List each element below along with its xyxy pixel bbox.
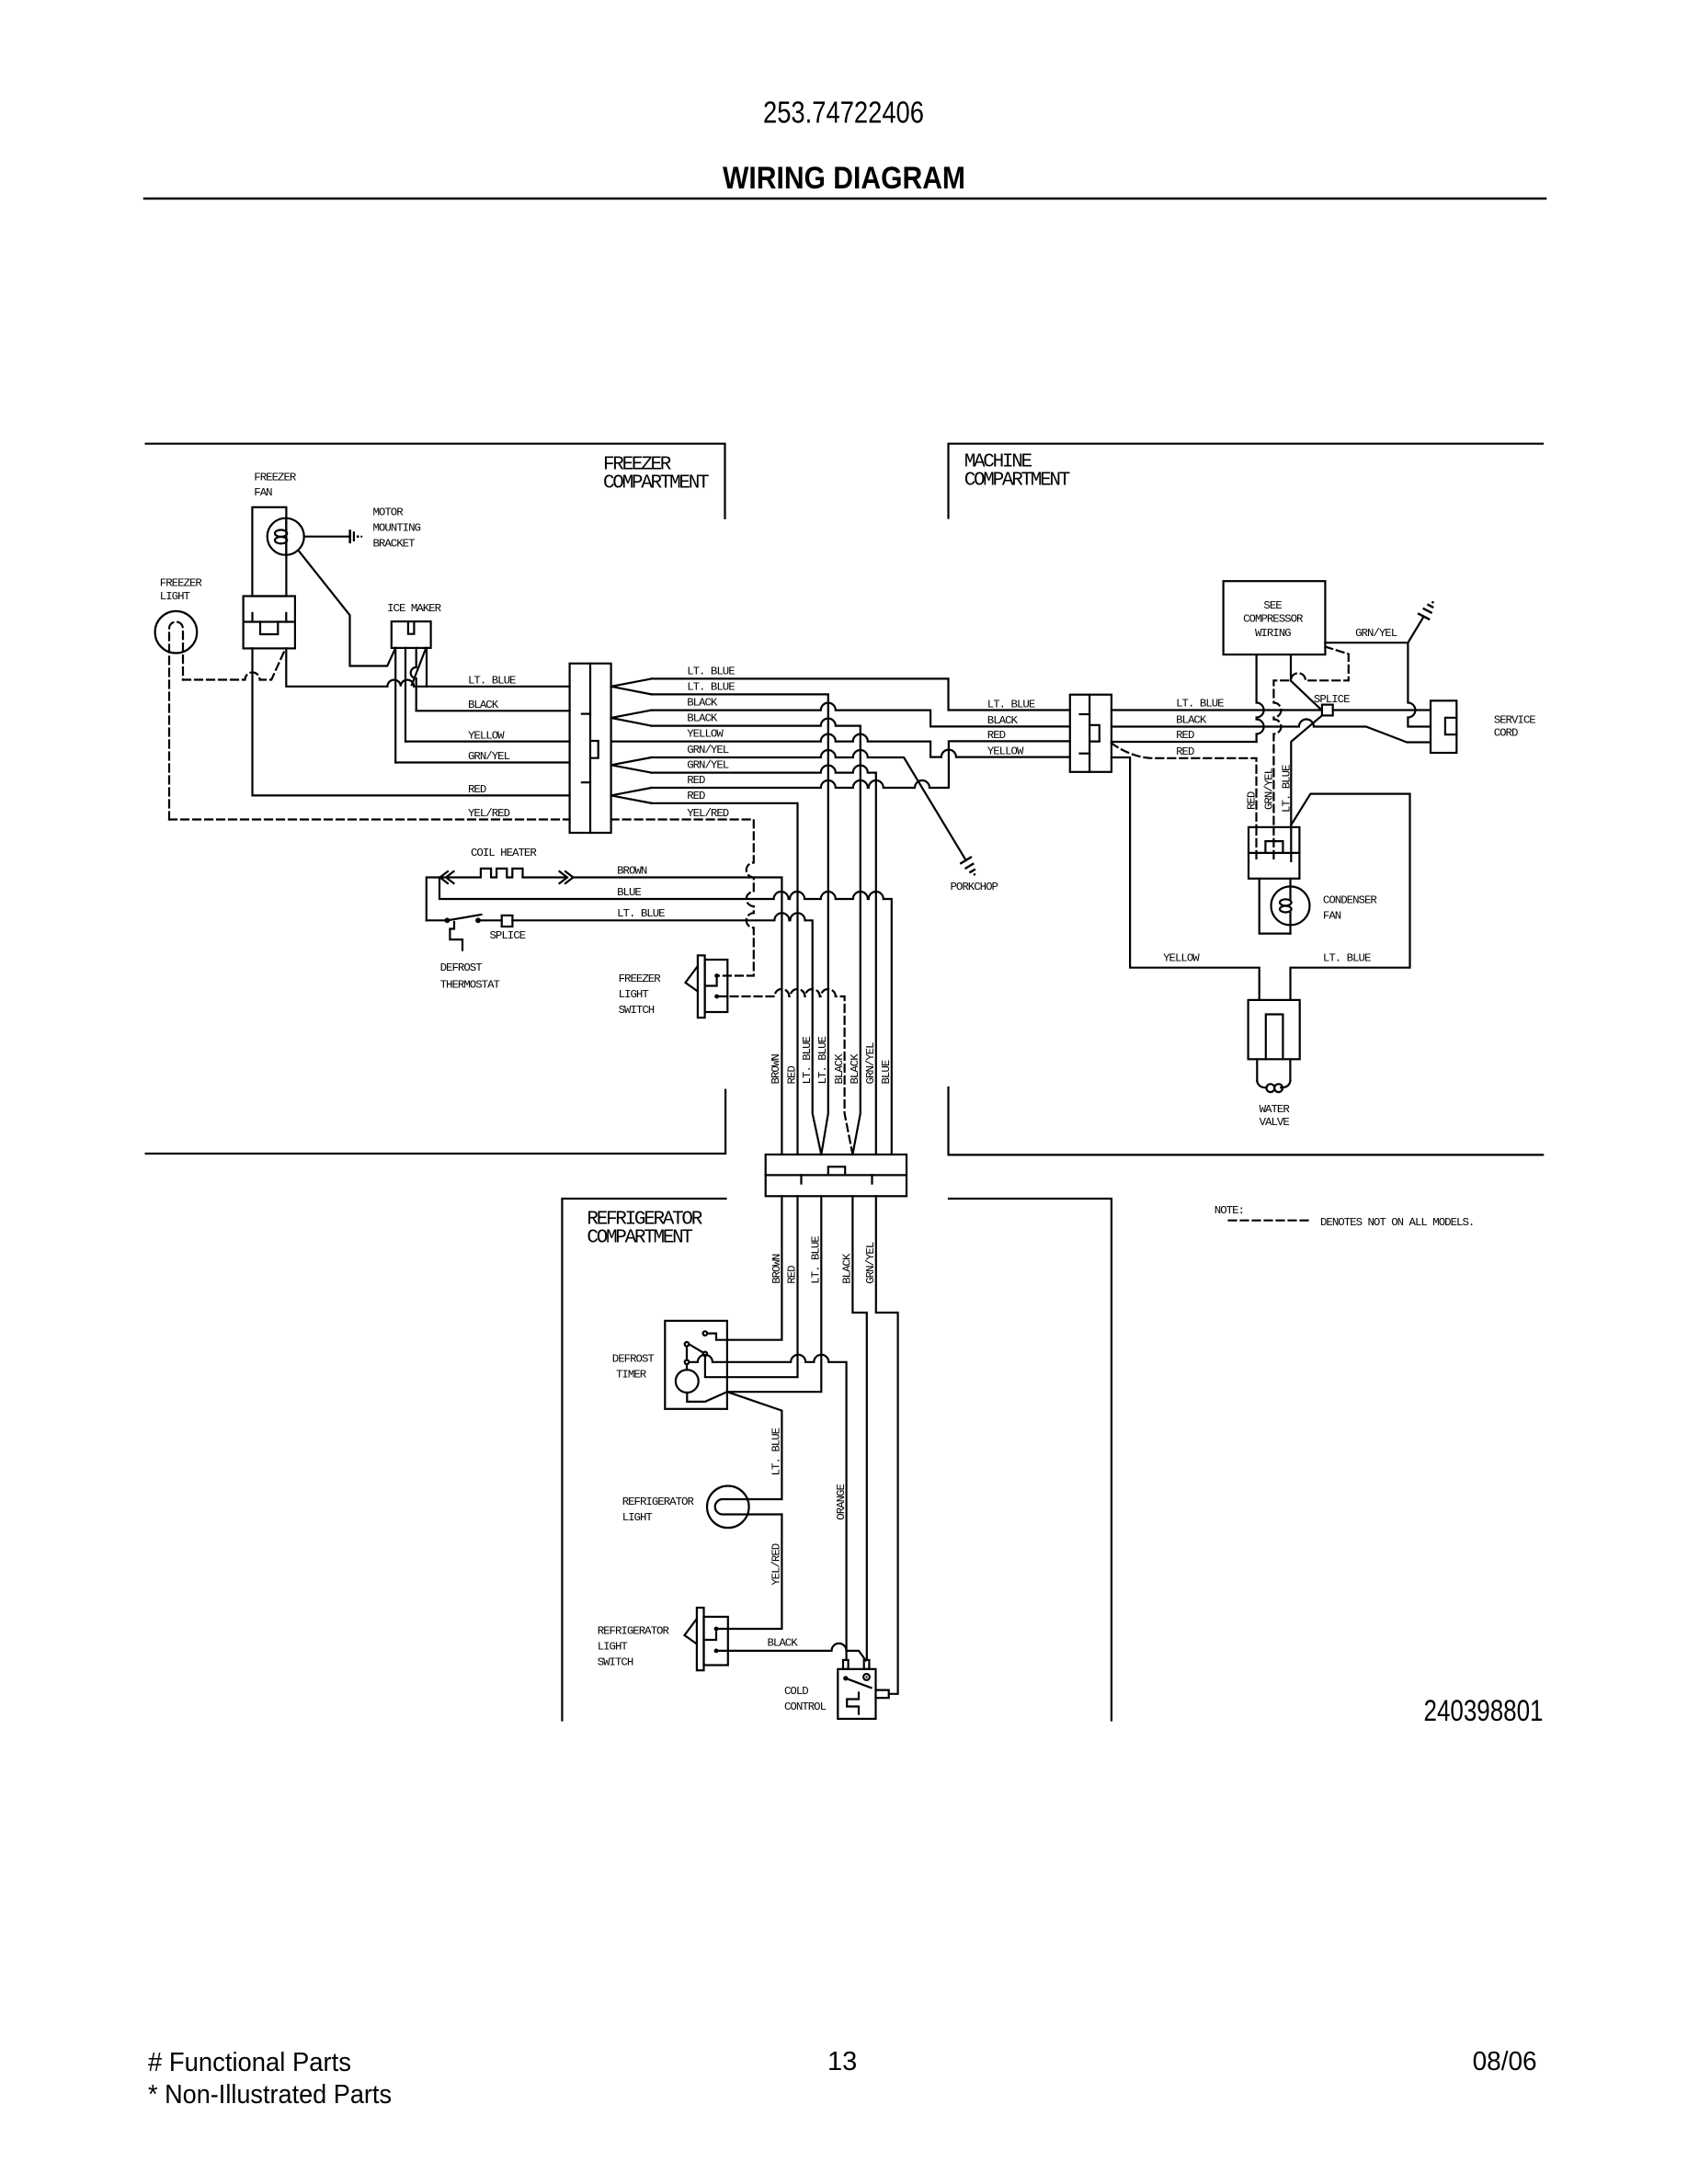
C3 divider <box>766 1174 907 1176</box>
svg-text:YELLOW: YELLOW <box>468 729 505 742</box>
wire LT. BLUE C2 to splice <box>1112 709 1321 711</box>
svg-text:FREEZER: FREEZER <box>254 472 297 484</box>
wire LT. BLUE coil to C3 <box>512 913 821 1155</box>
svg-text:LT. BLUE: LT. BLUE <box>468 675 516 688</box>
svg-text:ICE MAKER: ICE MAKER <box>387 602 441 615</box>
svg-text:DENOTES NOT ON ALL MODELS.: DENOTES NOT ON ALL MODELS. <box>1320 1216 1474 1229</box>
svg-text:COMPRESSOR: COMPRESSOR <box>1243 613 1304 626</box>
machine compartment border top-left <box>949 444 1544 518</box>
svg-text:240398801: 240398801 <box>1424 1694 1544 1727</box>
svg-text:GRN/YEL: GRN/YEL <box>468 750 510 763</box>
wire GRN/YEL C3 to cold control <box>876 1196 898 1694</box>
C2 notch <box>1089 725 1100 742</box>
wire LT. BLUE #2 down to C3 <box>652 694 828 1155</box>
svg-text:YEL/RED: YEL/RED <box>468 807 510 820</box>
svg-text:253.74722406: 253.74722406 <box>763 96 924 130</box>
svg-text:DEFROST: DEFROST <box>612 1353 655 1366</box>
C2 tick 1 <box>1080 713 1090 715</box>
svg-text:RED: RED <box>1176 729 1194 742</box>
svg-text:REFRIGERATOR: REFRIGERATOR <box>598 1624 670 1637</box>
wire RED #1 up to C2 <box>652 741 1070 788</box>
svg-text:RED: RED <box>1246 791 1259 810</box>
compressor box SEE COMPRESSOR WIRING <box>1224 581 1326 654</box>
svg-text:SWITCH: SWITCH <box>619 1004 655 1017</box>
svg-text:LT. BLUE: LT. BLUE <box>816 1036 829 1084</box>
svg-text:PORKCHOP: PORKCHOP <box>951 881 998 893</box>
wire LT. BLUE condenser to water valve loop <box>1291 794 1410 1000</box>
wire BROWN heater to C3 <box>573 878 781 1155</box>
C3 pin stub right <box>871 1175 873 1183</box>
svg-text:LT. BLUE: LT. BLUE <box>1323 952 1371 965</box>
condenser motor coil loops <box>1280 899 1292 905</box>
refrigerator light filament U <box>715 1499 782 1515</box>
splice square freezer <box>502 916 513 927</box>
ice maker lead 2 vertical (yellow) <box>405 648 406 742</box>
timer contact4 to motor <box>686 1364 688 1370</box>
svg-text:LT. BLUE: LT. BLUE <box>687 665 735 677</box>
svg-text:LT. BLUE: LT. BLUE <box>617 907 665 920</box>
condenser pin lt.blue stub <box>1290 827 1292 861</box>
svg-text:YEL/RED: YEL/RED <box>687 807 729 820</box>
wire BLACK C2 to service cord <box>1112 720 1431 743</box>
svg-text:GRN/YEL: GRN/YEL <box>1355 627 1397 640</box>
wire YELLOW to C2 <box>611 734 1070 757</box>
freezer switch internal link <box>705 979 717 986</box>
wire GRN/YEL dashed compressor to condenser fan <box>1273 647 1348 827</box>
freezer switch contact bottom <box>714 995 719 999</box>
svg-text:COMPARTMENT: COMPARTMENT <box>603 473 709 495</box>
wire GRN/YEL #1 to porkchop ground <box>652 750 966 860</box>
timer contact 2 <box>685 1342 690 1347</box>
svg-text:BLACK: BLACK <box>687 712 718 725</box>
condenser fan motor leads <box>1289 879 1291 934</box>
svg-text:LT. BLUE: LT. BLUE <box>687 680 735 693</box>
svg-text:RED: RED <box>785 1066 798 1085</box>
svg-text:BLUE: BLUE <box>880 1060 893 1084</box>
wire LT. BLUE splice to service cord <box>1333 709 1431 711</box>
svg-text:COIL HEATER: COIL HEATER <box>471 847 537 859</box>
wire YEL/RED dashed to C1 <box>169 818 570 820</box>
svg-text:NOTE:: NOTE: <box>1215 1204 1244 1217</box>
refrigerator light switch body <box>704 1617 728 1666</box>
svg-text:DEFROST: DEFROST <box>440 961 483 974</box>
refrig switch plunger triangle <box>685 1619 697 1644</box>
fan connector pin stub left <box>251 613 253 622</box>
wire LT. BLUE #1 to machine jog <box>652 678 1070 710</box>
condenser pin red dashed stub <box>1255 827 1257 861</box>
svg-text:COMPARTMENT: COMPARTMENT <box>964 470 1070 491</box>
wire thermostat left link <box>427 919 448 921</box>
timer contact 4 <box>685 1360 690 1365</box>
svg-text:LT. BLUE: LT. BLUE <box>1280 765 1293 813</box>
water valve coil leads <box>1257 1059 1290 1081</box>
svg-text:BRACKET: BRACKET <box>373 537 416 550</box>
svg-text:LT. BLUE: LT. BLUE <box>1176 698 1224 711</box>
wire RED #2 down to C3 <box>652 803 798 1155</box>
cold control contact left <box>843 1676 848 1680</box>
C3 notch <box>828 1166 845 1175</box>
heater chevron left <box>440 871 454 883</box>
svg-text:FREEZER: FREEZER <box>160 577 203 590</box>
C1 tick 1 <box>582 712 590 714</box>
wire thermostat to splice <box>481 919 502 921</box>
wire BLACK ice maker to C1 <box>416 710 570 711</box>
defrost thermostat blade <box>447 915 481 920</box>
header rule line <box>144 198 1545 200</box>
svg-text:GRN/YEL: GRN/YEL <box>687 759 729 772</box>
cold control right stub <box>876 1690 889 1699</box>
svg-text:FAN: FAN <box>1323 909 1341 922</box>
compressor lead left to RED junction <box>1257 654 1264 742</box>
wire BLACK #1 jog to C2 <box>652 703 1070 727</box>
compressor lead right to splice <box>1291 654 1322 711</box>
timer switch blade <box>689 1344 703 1352</box>
freezer fan connector block <box>244 597 295 649</box>
svg-text:RED: RED <box>687 774 705 787</box>
svg-text:SERVICE: SERVICE <box>1494 714 1536 727</box>
wire YEL/RED light to switch <box>719 1515 782 1630</box>
wire GRN/YEL #2 down to C3 <box>652 766 876 1155</box>
C1 pin 3 flag grn/yel pair <box>611 757 652 773</box>
cold control capillary zigzag <box>847 1693 859 1714</box>
chassis ground hatch machine <box>1419 605 1432 620</box>
connector C1 freezer body <box>570 664 611 833</box>
refrig switch internal link <box>704 1632 717 1641</box>
service cord connector <box>1431 700 1456 753</box>
C2 midline <box>1089 695 1090 772</box>
C1 pin 2 flag black pair <box>611 711 652 726</box>
motor mounting bracket bar 2 <box>353 532 355 540</box>
svg-text:LIGHT: LIGHT <box>619 988 649 1001</box>
wire BLUE heater to C3 <box>439 878 892 1155</box>
condenser pin grn/yel dashed stub <box>1272 827 1274 861</box>
wire RED freezer fan to C1 <box>253 648 570 795</box>
cold control pin right <box>864 1660 870 1669</box>
porkchop chassis ground hatch <box>961 858 975 872</box>
C1 pin 1 flag lt.blue pair <box>611 678 652 694</box>
svg-text:WIRING: WIRING <box>1255 627 1291 640</box>
svg-text:MOUNTING: MOUNTING <box>373 522 421 535</box>
condenser fan motor circle <box>1272 886 1310 925</box>
svg-text:BLACK: BLACK <box>768 1636 799 1649</box>
porkchop hatch dot <box>974 873 976 876</box>
C2 tick 2 <box>1080 753 1090 755</box>
freezer light filament dashed U / yel-red drop <box>169 622 183 820</box>
ice maker body <box>392 621 431 648</box>
svg-text:CONDENSER: CONDENSER <box>1323 893 1377 906</box>
wire RED dashed C2 to condenser fan <box>1112 744 1257 827</box>
svg-text:LIGHT: LIGHT <box>622 1511 653 1524</box>
refrigerator light switch plate <box>697 1608 704 1670</box>
svg-text:SPLICE: SPLICE <box>490 929 526 942</box>
svg-text:CONTROL: CONTROL <box>784 1701 827 1713</box>
C1 midline <box>589 664 591 833</box>
svg-text:BLACK: BLACK <box>1176 714 1207 727</box>
splice square machine <box>1322 705 1333 716</box>
freezer switch plunger triangle <box>686 966 698 992</box>
svg-text:TIMER: TIMER <box>616 1369 647 1382</box>
svg-text:BROWN: BROWN <box>617 864 647 877</box>
condenser fan left lead loop <box>1260 879 1291 934</box>
C1 pin 4 flag red pair <box>611 788 652 803</box>
bracket dot 2 <box>360 536 362 538</box>
svg-text:GRN/YEL: GRN/YEL <box>1262 768 1275 810</box>
wire motor to ice maker lead 1 <box>299 551 396 666</box>
wire ORANGE timer to cold control <box>689 1355 846 1659</box>
service cord notch <box>1445 718 1456 734</box>
C1 tick 2 <box>582 781 590 783</box>
svg-text:YELLOW: YELLOW <box>987 745 1024 757</box>
wire YELLOW C2 to water valve <box>1112 757 1260 1000</box>
freezer compartment border bottom <box>146 1090 726 1154</box>
refrigerator light bulb circle <box>707 1486 749 1529</box>
svg-text:LT. BLUE: LT. BLUE <box>987 698 1035 711</box>
wire GRN/YEL ice maker to C1 <box>395 761 569 763</box>
ice maker lead 1 vertical (grn/yel) <box>394 648 396 763</box>
motor coil chord <box>285 518 287 555</box>
ice maker lead 3 vertical (black) with hop <box>411 648 416 711</box>
svg-text:BROWN: BROWN <box>770 1054 782 1085</box>
freezer light switch body <box>705 960 728 1012</box>
timer motor to box edge <box>687 1392 727 1402</box>
wire YELLOW ice maker to C1 <box>405 740 570 742</box>
timer motor circle <box>676 1370 699 1393</box>
fan connector divider <box>244 620 295 622</box>
condenser connector divider <box>1249 852 1299 854</box>
ice maker lead 4 vertical (lt.blue) <box>426 648 428 687</box>
C3 pin stub left <box>800 1175 802 1183</box>
wire dashed switch to C3 black merge <box>719 989 853 1155</box>
defrost thermostat capillary zigzag <box>450 922 462 950</box>
defrost thermostat contact left <box>445 917 451 923</box>
wire RED C3 to defrost timer <box>705 1196 798 1377</box>
svg-text:BLACK: BLACK <box>833 1053 846 1085</box>
wire motor to mounting bracket <box>304 536 349 538</box>
chassis ground dot <box>1431 601 1434 604</box>
svg-text:13: 13 <box>827 2047 857 2076</box>
svg-text:LIGHT: LIGHT <box>598 1640 628 1653</box>
condenser motor coil chord <box>1289 888 1291 924</box>
wire BLACK C3 to cold control <box>852 1196 866 1659</box>
freezer compartment border top <box>146 444 725 518</box>
refrig switch contact top <box>714 1627 719 1632</box>
ice maker lead 4 diagonal to lt.blue <box>412 648 427 685</box>
ice maker slot <box>408 621 415 634</box>
wire LT. BLUE freezer fan to connector C1 <box>286 648 569 686</box>
freezer light bulb circle <box>155 611 198 654</box>
heater chevron right <box>560 871 574 883</box>
cold control blade <box>846 1678 872 1688</box>
svg-text:RED: RED <box>1176 745 1194 758</box>
cold control contact right ring <box>863 1674 870 1680</box>
svg-text:GRN/YEL: GRN/YEL <box>864 1042 877 1085</box>
note dashed sample <box>1229 1220 1310 1222</box>
svg-text:MOTOR: MOTOR <box>373 506 405 519</box>
defrost coil heater element <box>427 869 565 920</box>
fan connector notch <box>260 622 278 635</box>
refrig switch contact bottom <box>714 1649 719 1654</box>
svg-text:YELLOW: YELLOW <box>1163 952 1200 965</box>
defrost thermostat contact right <box>475 917 481 923</box>
svg-text:CORD: CORD <box>1494 727 1518 740</box>
svg-text:RED: RED <box>987 729 1006 742</box>
bracket dot 1 <box>357 535 359 538</box>
cold control pin left <box>843 1660 849 1669</box>
timer contact 2-4 link <box>686 1347 688 1360</box>
defrost timer box <box>665 1321 727 1409</box>
timer contact 3 <box>703 1352 708 1357</box>
svg-text:SWITCH: SWITCH <box>598 1655 633 1668</box>
svg-text:LT. BLUE: LT. BLUE <box>801 1036 814 1084</box>
svg-text:WIRING DIAGRAM: WIRING DIAGRAM <box>723 161 965 196</box>
svg-text:# Functional Parts: # Functional Parts <box>148 2048 351 2077</box>
svg-text:VALVE: VALVE <box>1260 1116 1290 1129</box>
cold control box <box>838 1669 875 1719</box>
wire YEL/RED dashed down to freezer light switch <box>611 820 754 976</box>
svg-text:BLACK: BLACK <box>849 1053 861 1085</box>
wire BROWN C3 to defrost timer <box>708 1196 781 1339</box>
timer contact 1 <box>703 1331 708 1336</box>
svg-text:FAN: FAN <box>254 486 272 499</box>
freezer fan housing rect <box>252 507 286 597</box>
water valve inner slot <box>1266 1015 1283 1060</box>
connector C3 interconnect body <box>766 1155 907 1196</box>
svg-text:YEL/RED: YEL/RED <box>770 1543 783 1586</box>
svg-text:* Non-Illustrated Parts: * Non-Illustrated Parts <box>148 2080 392 2110</box>
svg-text:SPLICE: SPLICE <box>1314 693 1350 706</box>
svg-text:BLACK: BLACK <box>468 699 499 711</box>
svg-text:WATER: WATER <box>1260 1103 1291 1116</box>
machine compartment border bottom <box>949 1087 1544 1155</box>
svg-text:RED: RED <box>687 790 705 802</box>
water valve solenoid coil <box>1257 1081 1290 1087</box>
wire LT. BLUE splice down to condenser fan <box>1291 715 1322 827</box>
svg-text:THERMOSTAT: THERMOSTAT <box>440 979 500 992</box>
wire GRN/YEL to chassis ground <box>1408 617 1423 643</box>
wire BLACK #2 down to C3 <box>652 719 861 1155</box>
wire BLACK switch to cold control <box>719 1644 866 1661</box>
wire RED C2 to compressor lead <box>1112 741 1257 743</box>
svg-text:COLD: COLD <box>784 1685 808 1698</box>
svg-text:ORANGE: ORANGE <box>835 1484 848 1520</box>
svg-text:YELLOW: YELLOW <box>687 728 724 741</box>
freezer fan motor M1 circle <box>268 518 304 555</box>
freezer switch contact top <box>714 973 719 978</box>
C1 notch <box>590 741 599 758</box>
fan connector pin stub right <box>285 613 287 622</box>
condenser connector notch <box>1265 841 1283 853</box>
svg-text:REFRIGERATOR: REFRIGERATOR <box>622 1496 695 1508</box>
wire LT. BLUE timer to refrigerator light <box>727 1392 782 1499</box>
motor mounting bracket bar 1 <box>348 531 351 542</box>
svg-text:RED: RED <box>468 783 486 796</box>
wire dashed freezer light to fan connector <box>183 648 286 679</box>
svg-text:BLACK: BLACK <box>687 697 718 710</box>
connector C2 machine body <box>1070 695 1112 772</box>
motor coil loops <box>275 530 287 537</box>
wire LT. BLUE C3 to defrost timer <box>727 1196 821 1392</box>
svg-text:FREEZER: FREEZER <box>619 973 662 985</box>
svg-text:BLACK: BLACK <box>987 714 1019 727</box>
svg-text:LT. BLUE: LT. BLUE <box>770 1428 783 1475</box>
water valve connector <box>1249 1000 1300 1059</box>
svg-text:COMPARTMENT: COMPARTMENT <box>587 1227 692 1248</box>
svg-text:GRN/YEL: GRN/YEL <box>687 744 729 756</box>
freezer light switch plate <box>698 955 705 1018</box>
svg-text:LIGHT: LIGHT <box>160 590 190 603</box>
svg-text:08/06: 08/06 <box>1473 2047 1537 2076</box>
condenser fan connector <box>1249 827 1299 879</box>
refrigerator compartment border left <box>562 1199 725 1721</box>
svg-text:BLUE: BLUE <box>617 886 641 899</box>
wire GRN/YEL compressor to service cord <box>1325 643 1431 726</box>
refrigerator compartment border right <box>949 1199 1112 1721</box>
svg-text:SEE: SEE <box>1263 599 1282 612</box>
